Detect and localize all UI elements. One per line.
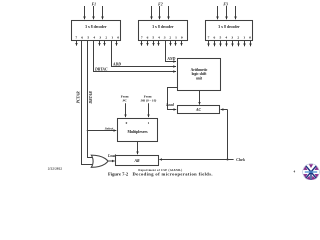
wire ALU output to AC	[199, 91, 201, 105]
wire clock horizontal to AR right edge	[159, 159, 227, 161]
svg-text:Decoding of microoperation fie: Decoding of microoperation fields.	[133, 171, 213, 176]
svg-text:DRTAC: DRTAC	[94, 68, 108, 72]
svg-text:3 x 8 decoder: 3 x 8 decoder	[152, 25, 174, 29]
logo college emblem	[303, 164, 320, 181]
svg-text:Select: Select	[105, 126, 115, 130]
wire decoder2 unused output stubs	[142, 41, 182, 46]
or-gate G1 (PCTAR + DRTAR)	[91, 155, 108, 167]
svg-text:F2: F2	[158, 3, 163, 7]
wire Select (branch from DRTAR line to multiplexers)	[88, 130, 117, 132]
wire clock stub to label	[228, 159, 234, 161]
svg-text:unit: unit	[196, 76, 203, 80]
svg-text:DR (0 – 10): DR (0 – 10)	[139, 98, 156, 102]
wire AND (decoder2 output 3 to ALU)	[166, 41, 177, 62]
svg-text:3 x 8 decoder: 3 x 8 decoder	[218, 25, 240, 29]
wire multiplexers output to AR	[137, 142, 139, 155]
wire From DR arrow into multiplexers input 1	[148, 103, 150, 117]
svg-text:DRTAR: DRTAR	[89, 91, 93, 105]
wire F1 input arrows to decoder 1	[85, 6, 103, 19]
svg-text:Multiplexers: Multiplexers	[127, 130, 148, 134]
decoder U1 (F1 3x8 decoder)	[72, 21, 121, 41]
wire DRTAR (decoder1 output 5 down to OR gate)	[88, 41, 93, 158]
svg-text:Load: Load	[165, 103, 174, 107]
svg-text:3 x 8 decoder: 3 x 8 decoder	[85, 25, 107, 29]
svg-text:AC: AC	[195, 108, 202, 112]
decoder U2 (F2 3x8 decoder)	[139, 21, 188, 41]
wire decoder3 output stubs	[209, 41, 251, 47]
svg-text:ADD: ADD	[112, 63, 121, 67]
node clock junction	[227, 159, 229, 161]
node From DR label	[139, 95, 156, 103]
register AC box	[178, 106, 220, 114]
svg-text:PC: PC	[122, 98, 127, 102]
wire clock vertical	[227, 110, 229, 160]
node From PC label	[121, 95, 129, 103]
wire OR gate output to AR Load	[108, 160, 115, 162]
wire F3 input arrows to decoder 3	[218, 6, 236, 19]
svg-text:Department of CSE (AI&ML): Department of CSE (AI&ML)	[138, 169, 182, 172]
wire clock to AC right edge	[221, 109, 228, 111]
wire Load of AC (elbow from ALU left edge)	[168, 88, 178, 110]
svg-text:PCTAR: PCTAR	[76, 91, 80, 103]
decoder U3 (F3 3x8 decoder)	[206, 21, 253, 41]
wire ADD (decoder1 output 1 to ALU)	[112, 41, 177, 67]
svg-text:AND: AND	[166, 57, 175, 61]
wire F2 input arrows to decoder 2	[152, 6, 169, 19]
wire From PC arrow into multiplexers input 0	[125, 103, 127, 117]
svg-text:2/22/2022: 2/22/2022	[48, 166, 62, 170]
svg-text:Figure 7-2: Figure 7-2	[108, 171, 129, 176]
wire DRTAC (decoder1 output 4 to ALU)	[94, 41, 177, 72]
svg-text:Clock: Clock	[236, 158, 245, 162]
multiplexer MUX box	[118, 119, 158, 142]
block U4 arithmetic logic shift unit	[178, 59, 221, 91]
svg-text:AR: AR	[133, 159, 140, 163]
svg-text:Load: Load	[107, 154, 116, 158]
svg-text:4: 4	[294, 169, 296, 173]
wire decoder1 unused output stubs	[77, 41, 117, 46]
svg-text:F3: F3	[223, 3, 228, 7]
register AR box	[116, 156, 159, 166]
wire PCTAR (decoder1 output 6 down to OR gate)	[82, 41, 93, 165]
